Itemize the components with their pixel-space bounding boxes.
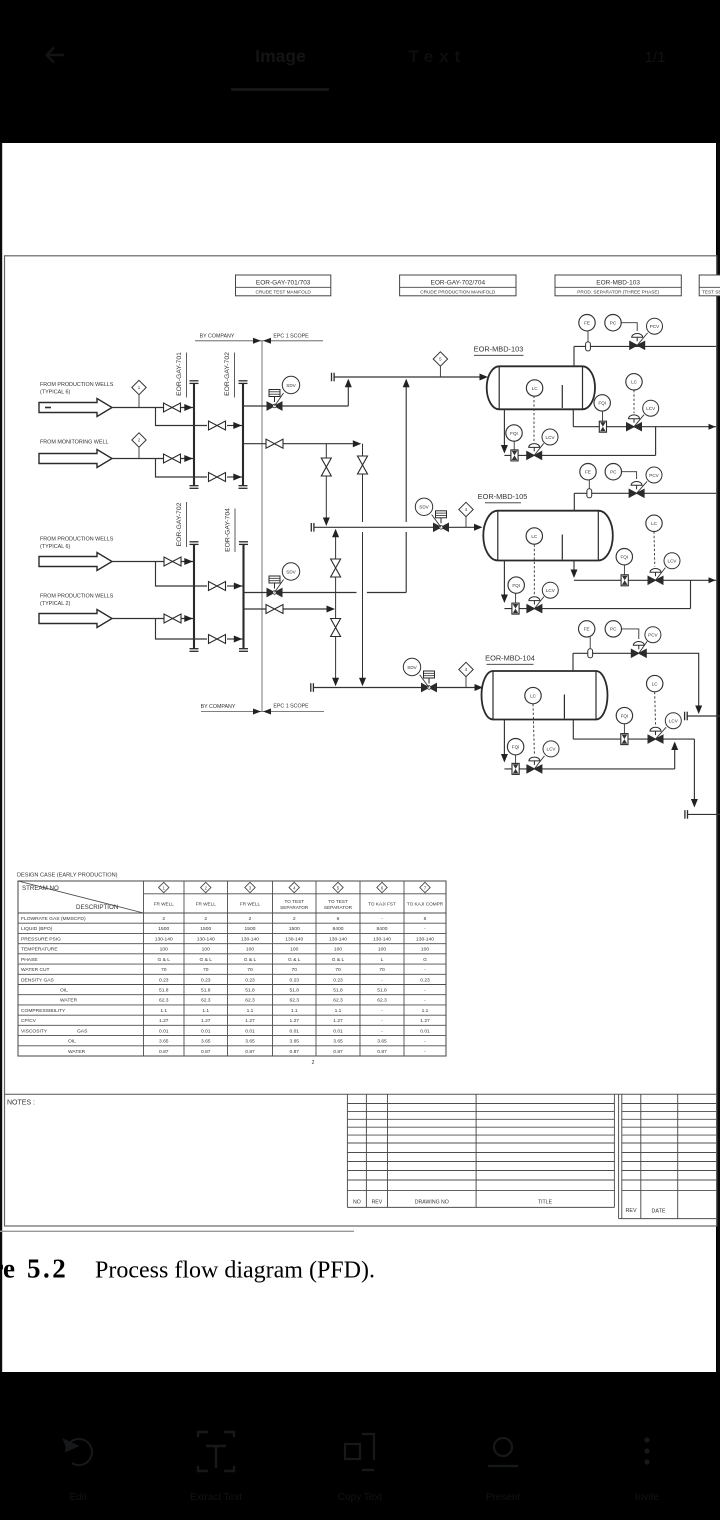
svg-text:0.23: 0.23	[201, 977, 211, 983]
header EOR-GAY-702 bottom cap	[239, 486, 248, 489]
flow indicator FQI MBD-104 oil	[507, 739, 523, 755]
svg-text:PC: PC	[610, 627, 617, 632]
svg-text:FROM PRODUCTION WELLS: FROM PRODUCTION WELLS	[40, 382, 114, 388]
svg-text:LCV: LCV	[646, 406, 656, 411]
svg-text:1.1: 1.1	[335, 1008, 342, 1014]
svg-text:Extract Text: Extract Text	[190, 1492, 242, 1503]
level control valve LCV MBD-104 oil	[527, 741, 559, 773]
LC to LCV signal MBD-105	[653, 532, 656, 567]
riser C middle	[335, 577, 337, 619]
svg-text:3.65: 3.65	[245, 1039, 255, 1045]
svg-text:TO TEST: TO TEST	[284, 899, 304, 904]
svg-text:FQI: FQI	[620, 555, 628, 560]
FQI stem MBD-104 water	[623, 724, 625, 734]
shutdown valve SDV MBD-105 feed	[415, 498, 448, 531]
feed line MBD-104	[313, 687, 480, 689]
svg-text:70: 70	[203, 967, 209, 973]
svg-text:FE: FE	[585, 470, 591, 475]
inlet 4 crossover line	[227, 638, 243, 640]
globe valve riser C lower	[331, 619, 341, 637]
svg-text:0.87: 0.87	[245, 1049, 255, 1055]
svg-text:DESIGN CASE (EARLY PRODUCTION): DESIGN CASE (EARLY PRODUCTION)	[17, 873, 118, 879]
gate valve inlet 2 to header 701	[164, 454, 181, 463]
scope top arrow left	[263, 338, 271, 344]
svg-text:100: 100	[202, 947, 210, 953]
arrow liquid outlet MBD-104	[691, 799, 698, 808]
svg-text:G & L: G & L	[199, 957, 212, 963]
flow meter MBD-104 water	[621, 734, 628, 745]
bottom nav icon extract text	[198, 1432, 234, 1471]
svg-text:REV: REV	[625, 1208, 636, 1214]
svg-text:130-140: 130-140	[416, 936, 434, 942]
svg-text:100: 100	[378, 947, 386, 953]
arrow into header 702 (inlet2)	[233, 474, 242, 481]
svg-text:2: 2	[293, 916, 296, 922]
label EOR-GAY-704 underline	[234, 509, 236, 553]
liquid header line MBD-104	[688, 813, 720, 815]
scope boundary bottom line	[201, 711, 324, 713]
label EOR-MBD-105 underline	[485, 502, 521, 504]
svg-text:TO TEST: TO TEST	[328, 899, 348, 904]
label EOR-GAY-702 underline	[234, 353, 236, 398]
svg-text:62.3: 62.3	[289, 998, 299, 1004]
svg-text:CP/CV: CP/CV	[21, 1018, 37, 1024]
inlet line 1	[112, 407, 194, 409]
arrow riser C into MBD-104 feed	[332, 678, 339, 687]
level control valve LCV MBD-103 water	[627, 400, 659, 431]
top bar tab underline	[231, 88, 329, 91]
svg-text:CRUDE TEST MANIFOLD: CRUDE TEST MANIFOLD	[255, 290, 311, 295]
svg-text:1500: 1500	[158, 926, 169, 932]
stream diamond 4 (MBD-104)	[459, 662, 473, 687]
svg-text:0.01: 0.01	[245, 1028, 255, 1034]
prod line segment	[282, 608, 330, 610]
feed line MBD-105	[314, 526, 481, 528]
svg-text:0.01: 0.01	[333, 1028, 343, 1034]
svg-text:CRUDE PRODUCTION MANIFOLD: CRUDE PRODUCTION MANIFOLD	[420, 290, 496, 295]
header EOR-GAY-701 top cap	[190, 381, 199, 384]
level controller LC MBD-104	[525, 687, 541, 703]
svg-text:FQI: FQI	[510, 431, 518, 436]
gas header MBD-103	[574, 345, 716, 347]
arrow water line MBD-105 to plant	[709, 577, 716, 583]
svg-text:SEPARATOR: SEPARATOR	[324, 905, 353, 910]
riser SDV-2 upper	[405, 380, 407, 522]
svg-text:SDV: SDV	[286, 383, 296, 388]
inlet 4 crossover drop	[156, 619, 208, 640]
svg-text:0.01: 0.01	[159, 1028, 169, 1034]
gas riser MBD-105	[573, 493, 575, 510]
pressure controller PC MBD-105	[605, 464, 621, 480]
svg-text:G: G	[423, 957, 427, 963]
inlet 2 crossover line	[227, 476, 242, 478]
svg-text:EOR-GAY-701/703: EOR-GAY-701/703	[256, 280, 311, 287]
arrow riser SDV-2 joins feed	[403, 379, 410, 388]
svg-text:1500: 1500	[245, 926, 256, 932]
arrow gas down MBD-104	[695, 706, 702, 715]
svg-text:L: L	[381, 957, 384, 963]
svg-text:EOR-GAY-701: EOR-GAY-701	[176, 352, 183, 396]
svg-text:LC: LC	[530, 693, 537, 698]
scope bottom arrow right	[253, 709, 261, 715]
FQI stem MBD-104 oil	[515, 755, 517, 764]
water line MBD-105	[574, 579, 716, 581]
gate valve inlet 4 to header 702b	[164, 614, 181, 623]
stream diamond 1	[132, 380, 146, 407]
SDV-2 line from header 704	[244, 592, 268, 594]
svg-text:70: 70	[247, 967, 253, 973]
svg-text:LCV: LCV	[546, 588, 556, 593]
SDV-2 line to riser (right of drop B)	[367, 592, 406, 594]
svg-text:WATER CUT: WATER CUT	[21, 967, 50, 973]
arrow feed into MBD-105	[474, 524, 483, 531]
header EOR-GAY-701 bottom cap	[190, 486, 199, 489]
svg-text:DRAWING NO: DRAWING NO	[415, 1200, 449, 1206]
drop line A x=326	[325, 444, 327, 518]
gas riser MBD-104	[572, 653, 574, 671]
svg-text:GAS: GAS	[77, 1028, 88, 1034]
flow element FE MBD-105	[580, 464, 596, 480]
arrow into header 702b (inlet3)	[184, 558, 193, 565]
test line segment	[282, 443, 353, 445]
svg-text:DATE: DATE	[652, 1209, 666, 1215]
arrow feed into MBD-104	[475, 684, 484, 691]
svg-text:8400: 8400	[377, 926, 388, 932]
arrow water riser MBD-105	[571, 570, 578, 579]
arrow oil joins water line MBD-104	[671, 742, 678, 751]
bottom nav icon lens	[488, 1438, 518, 1466]
svg-text:STREAM NO: STREAM NO	[22, 885, 59, 892]
SDV-1 line to riser	[282, 405, 348, 407]
svg-text:G & L: G & L	[157, 957, 170, 963]
flow element FE symbol MBD-103	[586, 342, 591, 351]
svg-text:Edit: Edit	[69, 1492, 86, 1503]
pressure control valve PCV MBD-105	[629, 467, 662, 497]
header EOR-GAY-702b pipe	[193, 544, 195, 648]
oil line MBD-103	[504, 454, 655, 456]
LC to LCV signal MBD-105 oil	[533, 545, 535, 596]
svg-text:130-140: 130-140	[373, 936, 391, 942]
svg-text:Copy Text: Copy Text	[338, 1492, 383, 1503]
svg-text:1.27: 1.27	[420, 1018, 430, 1024]
FQI stem MBD-103 oil	[513, 441, 515, 450]
svg-text:SEPARATOR: SEPARATOR	[280, 905, 309, 910]
svg-text:FQI: FQI	[621, 713, 629, 718]
svg-text:0.87: 0.87	[377, 1049, 387, 1055]
svg-text:0.01: 0.01	[201, 1028, 211, 1034]
flow indicator FQI MBD-103 water	[594, 395, 610, 411]
svg-text:LCV: LCV	[668, 559, 678, 564]
table column descriptions	[154, 899, 444, 910]
flow element FE MBD-104	[579, 621, 595, 637]
svg-text:6: 6	[337, 916, 340, 922]
oil riser MBD-105	[503, 560, 505, 602]
svg-text:Process flow diagram (PFD).: Process flow diagram (PFD).	[95, 1258, 375, 1284]
label EOR-GAY-702 group2 underline	[186, 502, 188, 547]
svg-text:EOR-GAY-702: EOR-GAY-702	[176, 502, 183, 546]
inlet 1 crossover drop	[156, 408, 208, 426]
svg-text:3.65: 3.65	[333, 1039, 343, 1045]
prod line from header 704	[244, 608, 268, 610]
svg-text:51.8: 51.8	[245, 988, 255, 994]
svg-text:100: 100	[334, 947, 342, 953]
svg-text:EOR-GAY-704: EOR-GAY-704	[225, 508, 232, 552]
svg-text:VISCOSITY: VISCOSITY	[21, 1028, 48, 1034]
inlet line 4	[112, 618, 194, 620]
svg-text:PHASE: PHASE	[21, 957, 38, 963]
stream diamond 4 (MBD-105)	[459, 502, 473, 527]
inlet 1 crossover line	[227, 425, 242, 427]
gate valve inlet 3 to header 702b	[164, 557, 181, 566]
water-oil branch MBD-105	[690, 580, 692, 608]
svg-text:8400: 8400	[333, 926, 344, 932]
svg-text:PRESSURE PSIG: PRESSURE PSIG	[21, 936, 61, 942]
header EOR-GAY-704 top cap	[239, 542, 248, 545]
svg-text:NOTES :: NOTES :	[7, 1100, 35, 1107]
flow meter MBD-104 oil	[512, 763, 519, 774]
water line MBD-104	[573, 738, 694, 740]
svg-text:G & L: G & L	[244, 957, 257, 963]
svg-text:LCV: LCV	[669, 719, 679, 724]
svg-text:PCV: PCV	[650, 324, 660, 329]
svg-text:51.8: 51.8	[289, 988, 299, 994]
svg-text:1/1: 1/1	[645, 49, 666, 66]
gate valve inlet 1 to header 702	[209, 421, 226, 430]
title box EOR-GAY-702/704	[400, 275, 516, 296]
stream diamond 5	[433, 352, 447, 377]
header EOR-GAY-702 top cap	[239, 381, 248, 384]
arrow water line MBD-103 to plant	[709, 424, 716, 430]
figure bottom scan edge	[0, 1230, 354, 1232]
inlet arrow production wells 3	[39, 610, 112, 628]
svg-text:SDV: SDV	[419, 505, 429, 510]
flow meter MBD-103 water	[599, 421, 606, 432]
gate valve inlet 1 to header 701	[164, 403, 181, 412]
svg-text:100: 100	[160, 947, 168, 953]
svg-text:LC: LC	[651, 521, 658, 526]
SDV-1 line from header 702	[243, 405, 267, 407]
table stream number diamonds	[159, 882, 431, 892]
svg-text:EOR-MBD-103: EOR-MBD-103	[596, 280, 640, 287]
svg-text:2: 2	[204, 916, 207, 922]
svg-text:100: 100	[290, 947, 298, 953]
bottom nav icon rotate	[64, 1439, 92, 1465]
header EOR-GAY-702 pipe	[242, 384, 244, 486]
page left dark edge	[0, 143, 2, 1372]
svg-text:EPC 1 SCOPE: EPC 1 SCOPE	[273, 333, 309, 339]
svg-text:0.87: 0.87	[333, 1049, 343, 1055]
svg-text:3.65: 3.65	[377, 1039, 387, 1045]
svg-text:1.27: 1.27	[289, 1018, 299, 1024]
shutdown valve SDV-2	[267, 563, 300, 597]
svg-text:FROM MONITORING WELL: FROM MONITORING WELL	[40, 440, 108, 446]
drop line B lower x=362	[362, 532, 364, 679]
svg-text:3.65: 3.65	[201, 1039, 211, 1045]
water riser MBD-103	[572, 409, 574, 426]
svg-text:FR WELL: FR WELL	[196, 902, 217, 907]
label EOR-MBD-104 underline	[487, 663, 534, 665]
feed cap MBD-105	[311, 523, 314, 532]
liquid header cap	[685, 810, 688, 819]
svg-text:PROD. SEPARATOR (THREE PHASE): PROD. SEPARATOR (THREE PHASE)	[577, 290, 659, 295]
water riser MBD-104	[572, 720, 574, 739]
oil line MBD-104	[504, 768, 674, 770]
gate valve inlet 4 to header 704	[209, 635, 226, 644]
header EOR-GAY-702b bottom cap	[190, 649, 199, 652]
FQI stem MBD-105 oil	[515, 593, 517, 603]
svg-text:1.27: 1.27	[159, 1018, 169, 1024]
svg-text:EOR-MBD-103: EOR-MBD-103	[474, 345, 524, 354]
level controller LC MBD-104 right	[647, 675, 663, 691]
separator vessel EOR-MBD-105	[483, 511, 613, 561]
pressure controller PC MBD-103	[605, 315, 621, 331]
svg-text:DENSITY GAS: DENSITY GAS	[21, 977, 55, 983]
svg-text:62.3: 62.3	[159, 998, 169, 1004]
label EOR-MBD-103 underline	[474, 354, 524, 356]
svg-text:re5.2: re5.2	[0, 1254, 68, 1284]
svg-text:(TYPICAL 6): (TYPICAL 6)	[40, 390, 71, 396]
water riser MBD-105	[573, 560, 575, 571]
svg-text:TO KAJI FST: TO KAJI FST	[368, 902, 396, 907]
arrow into header 702 (inlet1)	[233, 422, 242, 429]
globe valve drop A	[321, 458, 331, 476]
header EOR-GAY-701 pipe	[193, 384, 195, 486]
svg-text:FROM PRODUCTION WELLS: FROM PRODUCTION WELLS	[40, 594, 114, 600]
svg-text:EOR-MBD-105: EOR-MBD-105	[478, 492, 528, 501]
FE stem MBD-104	[589, 637, 591, 649]
flow element FE symbol MBD-104	[588, 649, 593, 658]
gas header MBD-105	[574, 492, 716, 494]
flow meter MBD-103 oil	[511, 450, 518, 461]
svg-text:62.3: 62.3	[377, 998, 387, 1004]
svg-text:TO KAJI COMPR: TO KAJI COMPR	[407, 902, 444, 907]
svg-text:0.23: 0.23	[159, 977, 169, 983]
inlet line 3	[112, 561, 194, 563]
svg-text:FR WELL: FR WELL	[240, 902, 261, 907]
svg-text:51.8: 51.8	[333, 988, 343, 994]
LC to LCV signal MBD-103 oil	[533, 396, 535, 442]
title box EOR-GAY-701/703	[236, 275, 331, 296]
svg-text:BY COMPANY: BY COMPANY	[201, 704, 236, 710]
flow element FE symbol MBD-105	[587, 489, 592, 498]
water-oil branch MBD-103	[655, 427, 657, 456]
header EOR-GAY-704 pipe	[242, 544, 244, 648]
svg-text:BY COMPANY: BY COMPANY	[200, 333, 235, 339]
arrow into header 701 (inlet2)	[184, 455, 193, 462]
stream diamond 2	[132, 433, 146, 459]
weir MBD-105	[561, 535, 563, 560]
svg-text:70: 70	[292, 967, 298, 973]
oil line MBD-105	[504, 608, 690, 610]
revision table grid	[347, 1094, 614, 1207]
gas header MBD-104	[573, 653, 699, 712]
feed line MBD-103	[334, 376, 480, 378]
svg-text:G & L: G & L	[332, 957, 345, 963]
svg-text:1.1: 1.1	[202, 1008, 209, 1014]
svg-text:PCV: PCV	[649, 473, 659, 478]
svg-text:0.23: 0.23	[245, 977, 255, 983]
feed cap MBD-103	[332, 373, 335, 382]
svg-text:EOR-MBD-104: EOR-MBD-104	[485, 654, 535, 663]
flow indicator FQI MBD-105 oil	[508, 577, 524, 593]
svg-text:PC: PC	[610, 470, 617, 475]
FQI stem MBD-103 water	[602, 411, 604, 421]
oil riser MBD-104	[503, 720, 505, 761]
level control valve LCV MBD-105 water	[648, 553, 680, 585]
svg-text:1.1: 1.1	[247, 1008, 254, 1014]
svg-text:OIL: OIL	[60, 988, 68, 994]
flow meter MBD-105 oil	[512, 603, 519, 614]
shutdown valve SDV-1	[267, 376, 300, 410]
svg-text:LCV: LCV	[547, 747, 557, 752]
flow meter MBD-105 water	[621, 575, 628, 586]
svg-text:6: 6	[424, 916, 427, 922]
stream table grid	[18, 881, 446, 1056]
level controller LC MBD-103 right	[626, 374, 642, 390]
inlet arrow production wells 1	[39, 399, 112, 417]
riser SDV-1 to MBD-103 feed	[347, 380, 349, 406]
inlet 3 crossover line	[227, 585, 243, 587]
svg-text:(TYPICAL 6): (TYPICAL 6)	[40, 544, 71, 550]
SDV-2 line to riser (left of drop B)	[282, 592, 357, 594]
gate valve prod line	[266, 605, 283, 614]
notes divider line	[5, 1093, 717, 1095]
gate valve test line	[266, 439, 283, 448]
svg-text:FQI: FQI	[512, 745, 520, 750]
svg-text:DESCRIPTION: DESCRIPTION	[76, 904, 118, 911]
svg-text:130-140: 130-140	[241, 936, 259, 942]
svg-text:62.3: 62.3	[245, 998, 255, 1004]
svg-text:SDV: SDV	[286, 569, 296, 574]
svg-text:FQI: FQI	[512, 583, 520, 588]
svg-text:51.8: 51.8	[377, 988, 387, 994]
inlet line 2	[112, 458, 194, 460]
weir MBD-103	[561, 385, 563, 408]
level controller LC MBD-105	[526, 528, 542, 544]
svg-text:51.8: 51.8	[159, 988, 169, 994]
drop line B upper x=362	[362, 444, 364, 522]
svg-text:1.1: 1.1	[291, 1008, 298, 1014]
svg-text:FLOWRATE GAS (MMSCFD): FLOWRATE GAS (MMSCFD)	[21, 916, 86, 922]
bottom nav icon copy	[345, 1434, 374, 1470]
svg-text:51.8: 51.8	[201, 988, 211, 994]
scope bottom arrow left	[263, 709, 271, 715]
feed cap MBD-104	[311, 683, 314, 692]
inlet arrow monitoring well	[39, 450, 112, 468]
PC to PCV signal MBD-105	[622, 472, 637, 479]
svg-text:1.27: 1.27	[245, 1018, 255, 1024]
svg-text:70: 70	[335, 967, 341, 973]
svg-text:COMPRESSIBILITY: COMPRESSIBILITY	[21, 1008, 66, 1014]
page right dark edge	[717, 143, 720, 1372]
svg-text:WATER: WATER	[68, 1049, 86, 1055]
svg-text:130-140: 130-140	[197, 936, 215, 942]
svg-text:G & L: G & L	[288, 957, 301, 963]
svg-text:REV: REV	[372, 1200, 383, 1206]
svg-text:Invite: Invite	[635, 1492, 659, 1503]
gate valve inlet 2 to header 702	[209, 473, 226, 482]
svg-text:Present: Present	[486, 1492, 521, 1503]
water line MBD-103	[573, 426, 716, 428]
LC to LCV signal MBD-104 oil	[533, 704, 534, 755]
inlet 3 crossover drop	[156, 562, 208, 587]
header EOR-GAY-702b top cap	[190, 542, 199, 545]
svg-text:0.01: 0.01	[289, 1028, 299, 1034]
test line from header 702	[243, 443, 267, 445]
svg-text:1.1: 1.1	[422, 1008, 429, 1014]
svg-text:PC: PC	[610, 321, 617, 326]
arrow prod line into riser C	[327, 606, 336, 613]
